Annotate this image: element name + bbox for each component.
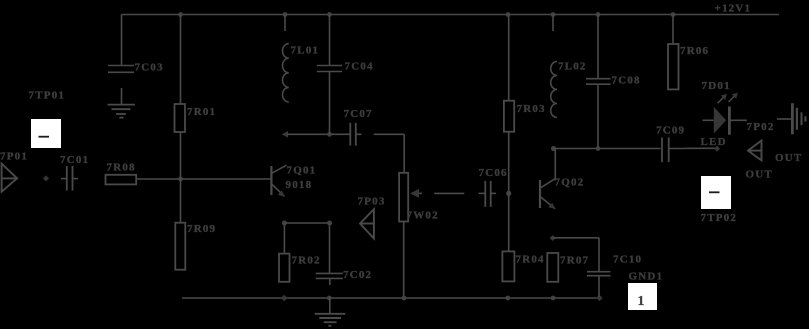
wire 7C04 to collector wire bbox=[329, 72, 331, 135]
wire 7R08 to 7Q01 base bbox=[136, 178, 270, 180]
svg-text:OUT: OUT bbox=[746, 169, 773, 181]
wire to 7C02 bbox=[329, 223, 331, 273]
node bottom rail dot 7C02 bbox=[327, 296, 332, 301]
label 7W02 bbox=[407, 210, 439, 222]
label 7L02 bbox=[558, 60, 587, 72]
wire 7C07 to 7W02 bbox=[374, 134, 404, 173]
label LED bbox=[701, 136, 727, 148]
wire bottom ground rail bbox=[182, 297, 601, 299]
svg-text:7C03: 7C03 bbox=[135, 62, 164, 74]
svg-text:OUT: OUT bbox=[775, 152, 802, 164]
wire +12V top rail bbox=[122, 14, 780, 16]
label 7TP01 bbox=[29, 90, 66, 102]
label 7R03 bbox=[517, 103, 546, 115]
svg-text:7TP02: 7TP02 bbox=[701, 212, 738, 224]
test point 7TP01 dash bbox=[39, 136, 50, 138]
node emitter junction dot left bbox=[282, 221, 287, 226]
label 7R06 bbox=[680, 45, 709, 57]
svg-text:7P01: 7P01 bbox=[0, 151, 28, 163]
wire collector to 7C09 bbox=[554, 148, 661, 150]
svg-text:7C10: 7C10 bbox=[613, 254, 642, 266]
inductor 7L02 bbox=[551, 62, 557, 118]
node bottom rail dot 7W02 bbox=[402, 296, 407, 301]
resistor 7R04 bbox=[502, 251, 514, 281]
resistor 7R08 bbox=[106, 175, 137, 185]
wire 7C09 to LED node bbox=[687, 147, 716, 149]
label 7P03 bbox=[358, 195, 386, 207]
label 7R01 bbox=[187, 106, 216, 118]
label OUT lower bbox=[746, 169, 773, 181]
svg-text:7C07: 7C07 bbox=[344, 108, 373, 120]
label 7C01 bbox=[60, 154, 89, 166]
wire rail to 7C03 bbox=[121, 15, 123, 65]
capacitor 7C07 bbox=[350, 123, 361, 146]
capacitor 7C01 bbox=[61, 166, 78, 191]
node base bias junction bbox=[178, 177, 183, 182]
test point 7TP01 white box bbox=[31, 119, 61, 148]
label 7C10 bbox=[613, 254, 642, 266]
node 1 label bbox=[638, 293, 646, 308]
label 7C08 bbox=[612, 75, 641, 87]
svg-text:7R01: 7R01 bbox=[187, 106, 216, 118]
net +12V1 label bbox=[715, 3, 752, 15]
label 7C04 bbox=[345, 61, 374, 73]
svg-text:7P02: 7P02 bbox=[747, 121, 775, 133]
connector output jack bbox=[777, 103, 806, 134]
node LED junction diamond bbox=[714, 146, 720, 152]
resistor 7R01 bbox=[175, 104, 186, 132]
node emitter junction dot right bbox=[327, 221, 332, 226]
svg-text:7C09: 7C09 bbox=[656, 124, 685, 136]
test point 7TP02 white box bbox=[701, 176, 731, 209]
svg-text:7C06: 7C06 bbox=[479, 167, 508, 179]
wire to 7R02 bbox=[283, 223, 285, 254]
svg-text:GND1: GND1 bbox=[629, 270, 664, 282]
svg-text:7R08: 7R08 bbox=[107, 161, 136, 173]
capacitor 7C03 bbox=[108, 66, 134, 73]
node collector arrow bbox=[282, 131, 288, 138]
LED emission arrows bbox=[718, 93, 738, 104]
potentiometer 7W02 bbox=[399, 173, 422, 222]
ground GND left bbox=[108, 105, 136, 118]
svg-text:7C02: 7C02 bbox=[343, 269, 372, 281]
diode LED 7D01 bbox=[703, 106, 747, 134]
svg-text:7R03: 7R03 bbox=[517, 103, 546, 115]
wire rail stub to 7L01 bbox=[284, 15, 286, 32]
svg-text:7C04: 7C04 bbox=[345, 61, 374, 73]
label 7P02 bbox=[747, 121, 775, 133]
transistor 7Q01 bbox=[271, 165, 286, 197]
label 7R04 bbox=[516, 254, 545, 266]
capacitor 7C06 bbox=[479, 181, 497, 207]
wire rail to 7R06 bbox=[672, 15, 674, 45]
wire 7Q02 collector up bbox=[554, 149, 556, 179]
svg-text:LED: LED bbox=[701, 136, 727, 148]
svg-text:7P03: 7P03 bbox=[358, 195, 386, 207]
port 7P01 input triangle bbox=[2, 164, 18, 192]
node bottom rail diamond 7R02 bbox=[281, 295, 288, 301]
label 7C02 bbox=[343, 269, 372, 281]
wire rail to 7C04 bbox=[329, 15, 331, 66]
label 7TP02 bbox=[701, 212, 738, 224]
svg-text:7L02: 7L02 bbox=[558, 60, 587, 72]
svg-text:7Q02: 7Q02 bbox=[555, 177, 585, 189]
svg-text:7R04: 7R04 bbox=[516, 254, 545, 266]
svg-text:7W02: 7W02 bbox=[407, 210, 439, 222]
svg-text:7C08: 7C08 bbox=[612, 75, 641, 87]
port 7P02 triangle bbox=[748, 141, 762, 161]
label 7C09 bbox=[656, 124, 685, 136]
node 7Q02 emitter diamond bbox=[550, 235, 556, 241]
svg-text:7L01: 7L01 bbox=[291, 45, 320, 57]
resistor 7R07 bbox=[547, 253, 558, 282]
inductor 7L01 bbox=[282, 44, 288, 102]
label 7R07 bbox=[560, 254, 589, 266]
svg-text:7TP01: 7TP01 bbox=[29, 90, 66, 102]
node 7C08 bottom dot bbox=[596, 146, 601, 151]
wire 7C08 to collector wire bbox=[597, 84, 599, 148]
wire wiper to 7C06 bbox=[434, 192, 464, 194]
node 7C04 junction dot bbox=[327, 132, 332, 137]
svg-text:7R07: 7R07 bbox=[560, 254, 589, 266]
resistor 7R03 bbox=[504, 101, 514, 132]
node 7Q02 base junction dot bbox=[506, 191, 511, 196]
wire 7C03 to ground stem bbox=[121, 88, 123, 104]
label 7P01 bbox=[0, 151, 28, 163]
svg-text:7R02: 7R02 bbox=[292, 254, 321, 266]
wire rail stub to 7L02 bbox=[552, 15, 554, 32]
label 7L01 bbox=[291, 45, 320, 57]
capacitor 7C09 bbox=[662, 138, 687, 163]
svg-text:+12V1: +12V1 bbox=[715, 3, 752, 15]
node 1 white box bbox=[628, 283, 657, 310]
resistor 7R09 bbox=[175, 223, 185, 270]
label 7C07 bbox=[344, 108, 373, 120]
svg-text:7C01: 7C01 bbox=[60, 154, 89, 166]
label 7Q01 bbox=[287, 164, 317, 176]
label OUT right bbox=[775, 152, 802, 164]
test point 7TP02 dash bbox=[709, 191, 720, 193]
label 7R09 bbox=[187, 223, 216, 235]
label 7Q02 bbox=[555, 177, 585, 189]
label GND1 bbox=[629, 270, 664, 282]
label 7C03 bbox=[135, 62, 164, 74]
wire rail to 7R01 bbox=[180, 15, 182, 105]
wire 7R01 to 7R09 bbox=[180, 132, 182, 223]
resistor 7R02 bbox=[279, 254, 290, 282]
wire 7W02 to bottom rail bbox=[403, 222, 405, 299]
wire emitter to 7C10 bbox=[553, 238, 599, 272]
svg-text:1: 1 bbox=[638, 293, 646, 308]
wire 7Q01 emitter bus bbox=[284, 222, 329, 224]
node bottom rail end diamond 7C10 bbox=[596, 295, 602, 301]
capacitor 7C04 bbox=[317, 66, 342, 72]
label 7R08 bbox=[107, 161, 136, 173]
wire rail to 7R03 bbox=[508, 15, 510, 101]
capacitor 7C08 bbox=[586, 79, 611, 85]
label 7C06 bbox=[479, 167, 508, 179]
node rail junction dots bbox=[178, 12, 675, 17]
node input diamond bbox=[43, 176, 49, 182]
capacitor 7C02 bbox=[316, 273, 343, 285]
node collector junction dot bbox=[551, 146, 556, 151]
transistor 7Q02 bbox=[540, 179, 555, 209]
wire 7R03 to 7R04 bbox=[508, 132, 510, 252]
label 7D01 bbox=[702, 80, 731, 92]
svg-text:9018: 9018 bbox=[286, 179, 313, 191]
port 7P03 triangle bbox=[360, 209, 374, 238]
node bottom rail dot 7R07 bbox=[551, 296, 556, 301]
wire 7L01/7Q01 collector to 7C07 bbox=[287, 133, 350, 135]
node bottom rail dot 7R04 bbox=[505, 296, 510, 301]
svg-text:7R09: 7R09 bbox=[187, 223, 216, 235]
label 7R02 bbox=[292, 254, 321, 266]
svg-text:7Q01: 7Q01 bbox=[287, 164, 317, 176]
svg-text:7R06: 7R06 bbox=[680, 45, 709, 57]
capacitor 7C10 bbox=[587, 272, 611, 297]
resistor 7R06 bbox=[668, 44, 679, 89]
svg-text:7D01: 7D01 bbox=[702, 80, 731, 92]
ground GND bottom bbox=[315, 298, 346, 326]
wire rail to 7C08 bbox=[597, 15, 599, 79]
label 9018 bbox=[286, 179, 313, 191]
